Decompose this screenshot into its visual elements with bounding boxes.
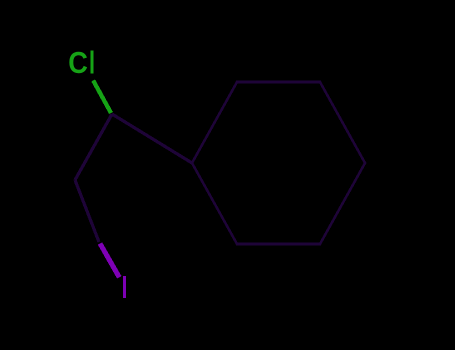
atom label I	[123, 276, 126, 298]
svg-text:C: C	[68, 46, 88, 80]
bond C2-C3	[75, 180, 99, 242]
cyclohexane ring	[192, 82, 365, 244]
bond C1-ring	[112, 114, 192, 163]
bond C1-Cl	[93, 81, 111, 114]
bond C3-I	[100, 244, 119, 278]
bond C1-C2	[75, 114, 112, 180]
atom label Cl : l glyph	[91, 51, 94, 74]
